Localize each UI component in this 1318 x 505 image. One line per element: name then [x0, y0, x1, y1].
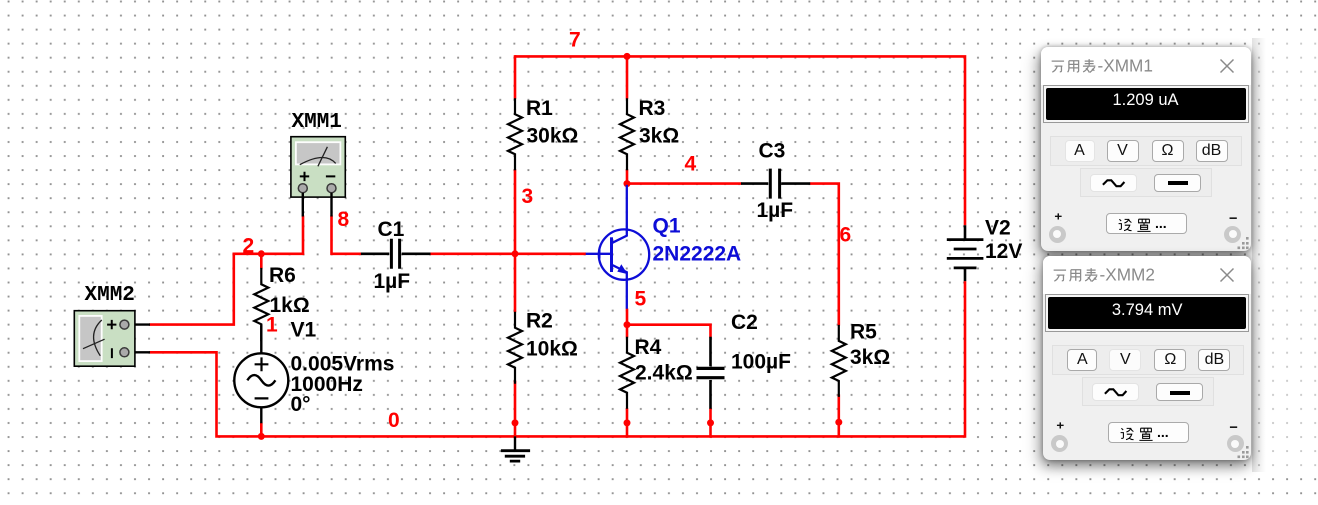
capacitor C2: [709, 337, 712, 409]
svg-text:0°: 0°: [291, 393, 311, 416]
svg-text:R3: R3: [639, 97, 666, 120]
svg-text:...: ...: [1157, 424, 1169, 440]
wire net7 top rail: [515, 56, 965, 225]
svg-text:Q1: Q1: [653, 215, 681, 238]
resistor R2: [508, 312, 522, 384]
svg-text:XMM1: XMM1: [292, 111, 342, 134]
wire net0 bottom rail with XMM2 minus lead: [149, 281, 965, 436]
svg-text:5: 5: [635, 288, 647, 311]
svg-text:R4: R4: [635, 336, 662, 359]
wire net8 C1 right to net3: [430, 253, 516, 256]
svg-text:C2: C2: [731, 311, 758, 334]
svg-text:10kΩ: 10kΩ: [526, 338, 578, 361]
svg-text:R6: R6: [269, 264, 296, 287]
svg-text:2.4kΩ: 2.4kΩ: [635, 362, 693, 385]
ground: [514, 436, 516, 450]
net0 junction V1 dot: [258, 433, 265, 440]
resistor R3: [620, 98, 634, 170]
wire base of Q1: [515, 253, 586, 256]
svg-text:4: 4: [685, 153, 697, 176]
svg-text:1µF: 1µF: [374, 270, 411, 293]
svg-text:30kΩ: 30kΩ: [527, 125, 579, 148]
capacitor C1: [361, 253, 431, 256]
transistor Q1: [586, 185, 650, 309]
resistor R4: [620, 337, 634, 409]
svg-text:C3: C3: [759, 140, 786, 163]
wire net2 R6 stub: [260, 253, 263, 269]
wire net5 emitter to junction to C2: [627, 309, 711, 338]
wire net6 C3 right down to R5: [810, 184, 839, 326]
svg-text:2N2222A: 2N2222A: [653, 243, 742, 266]
battery V2: [964, 225, 967, 281]
svg-text:V1: V1: [291, 319, 317, 342]
net4 junction dot: [624, 180, 631, 187]
wire net2 from XMM2 plus to junction to XMM1 plus: [149, 216, 303, 325]
svg-text:100µF: 100µF: [731, 351, 791, 374]
wire net3 column through R1 R2: [514, 55, 517, 438]
svg-text:...: ...: [1155, 215, 1167, 231]
net7 junction dot: [624, 53, 631, 60]
wire net0 C2 bottom stub: [709, 408, 712, 438]
svg-text:0: 0: [388, 409, 400, 432]
svg-text:3kΩ: 3kΩ: [639, 125, 679, 148]
svg-text:6: 6: [840, 224, 852, 247]
resistor R1: [508, 98, 522, 170]
multimeter XMM1 icon: [291, 137, 345, 217]
wire net4 R3 bottom to junction: [626, 169, 629, 185]
net3 junction dot: [512, 250, 519, 257]
wire net8 XMM1 minus to C1: [332, 216, 362, 254]
svg-text:-XMM1: -XMM1: [1097, 56, 1152, 76]
svg-text:12V: 12V: [985, 240, 1022, 263]
svg-text:-XMM2: -XMM2: [1100, 265, 1155, 285]
svg-text:R1: R1: [526, 97, 553, 120]
wire net0 R4 bottom stub: [626, 408, 629, 438]
net0 junction C2 dot: [707, 419, 714, 426]
net2 junction dot: [258, 250, 265, 257]
svg-text:R5: R5: [850, 320, 877, 343]
wire net4 junction to C3: [626, 182, 742, 185]
wire net6 R5 bottom to rail: [837, 394, 840, 437]
shadow fade strip right of panels: [1252, 38, 1318, 472]
svg-text:3: 3: [522, 185, 534, 208]
wire net7 R3 top stub: [626, 55, 629, 99]
wire net5 R4 stub: [626, 323, 629, 337]
svg-text:8: 8: [338, 208, 350, 231]
instrument panel XMM1: [1041, 47, 1251, 251]
resistor R6: [254, 268, 268, 341]
net0 junction R5 dot: [835, 419, 842, 426]
net0 junction R4 dot: [624, 419, 631, 426]
source V1: [260, 325, 262, 423]
svg-text:3kΩ: 3kΩ: [850, 346, 890, 369]
svg-text:R2: R2: [526, 309, 553, 332]
svg-text:V2: V2: [985, 217, 1011, 240]
instrument panel XMM2: [1043, 256, 1251, 460]
svg-text:XMM2: XMM2: [85, 284, 135, 307]
svg-text:2: 2: [243, 235, 255, 258]
svg-text:C1: C1: [378, 218, 405, 241]
svg-text:1: 1: [266, 314, 278, 337]
wire net1 V1 bottom to rail: [260, 423, 263, 437]
capacitor C3: [741, 182, 810, 185]
resistor R5: [832, 325, 846, 397]
net5 junction dot: [624, 321, 631, 328]
svg-text:7: 7: [569, 29, 581, 52]
svg-text:1µF: 1µF: [757, 199, 794, 222]
net0 junction R2 dot: [512, 419, 519, 426]
multimeter XMM2 icon: [74, 311, 150, 367]
